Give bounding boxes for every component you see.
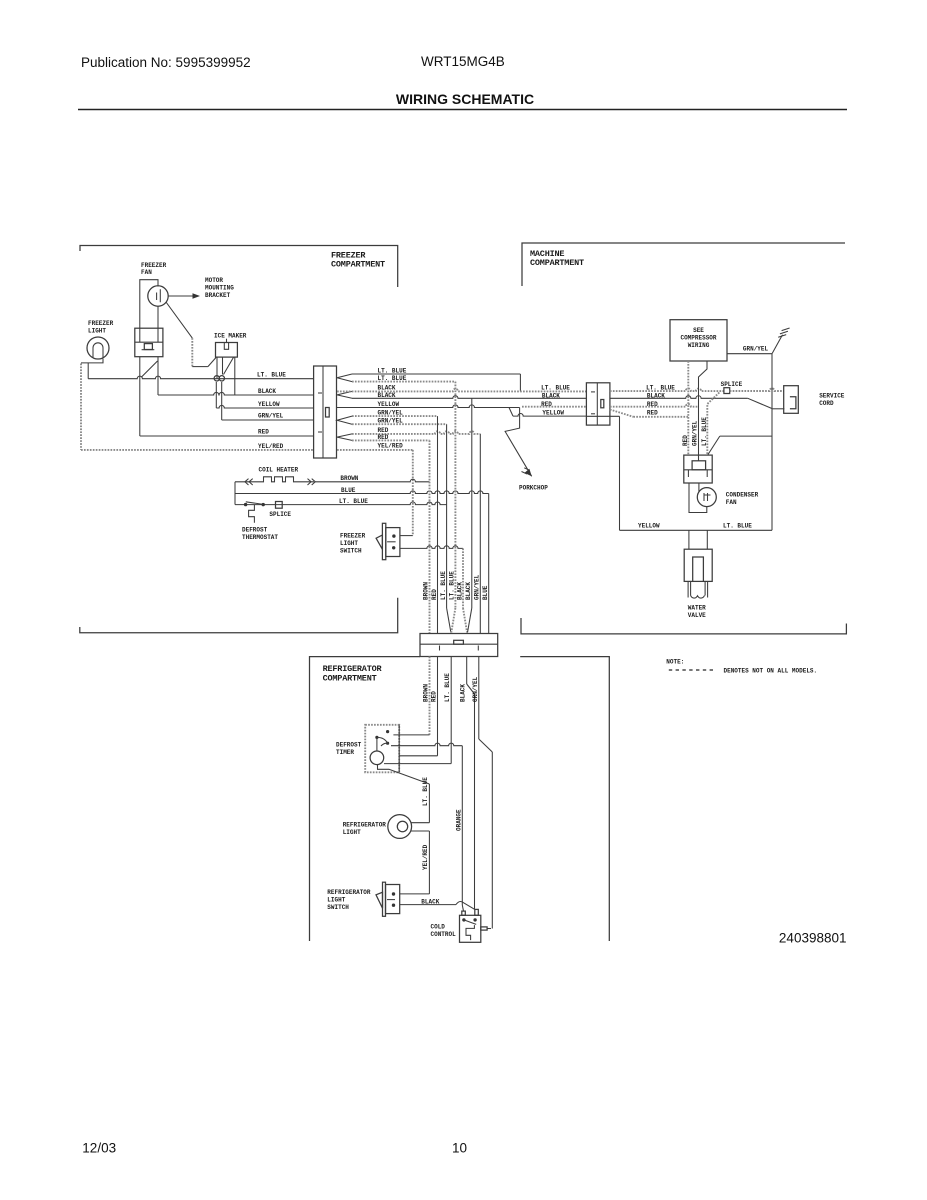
- wire RED m-right 2 dashed: [610, 410, 633, 417]
- wire from compressor box right: [699, 361, 708, 461]
- svg-text:YELLOW: YELLOW: [638, 523, 660, 530]
- svg-text:ICE MAKER: ICE MAKER: [214, 333, 247, 340]
- splice S1: [276, 502, 283, 509]
- svg-text:LIGHT: LIGHT: [327, 897, 345, 904]
- wire GRN/YEL bundle: [479, 434, 481, 634]
- wire LT. BLUE heater: [235, 502, 447, 505]
- svg-text:BLUE: BLUE: [341, 487, 356, 494]
- freezer light switch SW1: [382, 523, 385, 559]
- wire RED m dashed: [522, 406, 586, 408]
- svg-text:DENOTES NOT ON ALL MODELS.: DENOTES NOT ON ALL MODELS.: [724, 668, 818, 675]
- wire BLACK r3 dashed: [337, 389, 586, 392]
- svg-text:THERMOSTAT: THERMOSTAT: [242, 534, 278, 541]
- svg-text:YEL/RED: YEL/RED: [422, 844, 429, 870]
- svg-text:PORKCHOP: PORKCHOP: [519, 485, 548, 492]
- freezer compartment border top: [80, 246, 398, 288]
- ice maker switch arm diagonal: [224, 357, 234, 374]
- ice maker connector rings: [214, 376, 219, 381]
- svg-text:BLACK: BLACK: [460, 684, 467, 702]
- svg-text:TIMER: TIMER: [336, 749, 354, 756]
- refrigerator light lamp L2: [388, 815, 412, 839]
- svg-text:LT. BLUE: LT. BLUE: [449, 571, 456, 600]
- svg-text:MOTOR: MOTOR: [205, 277, 223, 284]
- svg-text:LT. BLUE: LT. BLUE: [378, 368, 407, 375]
- wire GRN/YEL ground horizontal: [727, 353, 772, 355]
- wire GRN/YEL freezer: [222, 419, 314, 421]
- wire LT. BLUE bundle b: [454, 382, 456, 608]
- wire BLACK m-right: [610, 396, 748, 399]
- wire BLACK r4: [352, 396, 586, 399]
- wire BROWN bundle dashed: [429, 440, 431, 633]
- freezer fan bracket housing: [135, 328, 163, 357]
- svg-text:LT. BLUE: LT. BLUE: [541, 385, 570, 392]
- svg-text:BLACK: BLACK: [465, 582, 472, 600]
- svg-text:YELLOW: YELLOW: [378, 401, 400, 408]
- pin spade BLACK pair: [337, 391, 352, 398]
- svg-text:BLACK: BLACK: [378, 392, 396, 399]
- condenser fan motor M2: [698, 483, 700, 492]
- svg-text:BROWN: BROWN: [423, 582, 430, 600]
- machine compartment border top: [522, 243, 845, 286]
- freezer fan to ice maker wire: [166, 302, 192, 338]
- svg-text:LT. BLUE: LT. BLUE: [339, 498, 368, 505]
- svg-text:RED: RED: [647, 410, 658, 417]
- svg-text:SWITCH: SWITCH: [340, 548, 362, 555]
- wire LT. BLUE splice to service cord dashed: [730, 388, 784, 391]
- wire BLACK freezer: [158, 392, 314, 395]
- svg-text:GRN/YEL: GRN/YEL: [472, 676, 479, 702]
- water valve feed wires: [688, 530, 690, 549]
- ice maker connector: [216, 343, 238, 358]
- splice S2: [724, 388, 730, 394]
- svg-text:BROWN: BROWN: [422, 684, 429, 702]
- coil heater element R1: [235, 477, 314, 482]
- svg-text:BLACK: BLACK: [542, 392, 560, 399]
- svg-text:SERVICE: SERVICE: [819, 393, 845, 400]
- svg-text:YEL/RED: YEL/RED: [378, 443, 404, 450]
- freezer light lamp L1: [87, 337, 109, 359]
- svg-text:BLACK: BLACK: [457, 582, 464, 600]
- svg-text:LT. BLUE: LT. BLUE: [723, 523, 752, 530]
- wire BLACK bundle dashed: [462, 548, 464, 608]
- svg-text:SPLICE: SPLICE: [269, 511, 291, 518]
- connector block P2 machine: [586, 383, 610, 425]
- coil heater left bracket wire: [234, 482, 236, 505]
- wire BLACK refrigerator: [466, 657, 468, 685]
- svg-text:NOTE:: NOTE:: [666, 659, 684, 666]
- svg-text:DEFROST: DEFROST: [242, 527, 268, 534]
- freezer light switch output wire: [400, 546, 463, 549]
- wire YEL/RED freezer dashed: [81, 449, 314, 451]
- ice maker pin 1: [216, 357, 218, 379]
- refrigerator light wires: [411, 822, 430, 824]
- pin spade RED pair: [337, 434, 352, 441]
- svg-text:FREEZER: FREEZER: [141, 262, 167, 269]
- wire GRN/YEL to cold control tab: [487, 928, 491, 930]
- wire YELLOW under P2: [586, 415, 619, 417]
- svg-text:DEFROST: DEFROST: [336, 742, 362, 749]
- wire LT. BLUE bundle a: [446, 424, 448, 608]
- compressor overload assembly: [684, 455, 712, 483]
- see compressor wiring box: [670, 320, 727, 361]
- porkchop arrow: [505, 408, 532, 477]
- svg-text:WRT15MG4B: WRT15MG4B: [421, 54, 505, 69]
- freezer compartment border bottom: [80, 598, 398, 633]
- svg-text:VALVE: VALVE: [688, 612, 706, 619]
- service cord connector: [784, 386, 799, 414]
- svg-text:GRN/YEL: GRN/YEL: [692, 420, 699, 446]
- water valve prongs: [688, 581, 708, 597]
- wire RED into timer: [399, 755, 437, 757]
- svg-text:ORANGE: ORANGE: [455, 809, 462, 831]
- svg-text:YELLOW: YELLOW: [258, 401, 280, 408]
- svg-text:CORD: CORD: [819, 400, 834, 407]
- svg-text:RED: RED: [258, 429, 269, 436]
- wire into light switch top: [400, 893, 430, 895]
- condenser loop top wire: [720, 435, 772, 437]
- svg-text:FREEZER: FREEZER: [88, 320, 114, 327]
- svg-text:FAN: FAN: [141, 269, 152, 276]
- svg-text:LIGHT: LIGHT: [340, 540, 358, 547]
- svg-text:SWITCH: SWITCH: [327, 904, 349, 911]
- wire RED r9 dashed: [352, 439, 430, 441]
- svg-text:BRACKET: BRACKET: [205, 292, 231, 299]
- svg-text:GRN/YEL: GRN/YEL: [743, 346, 769, 353]
- refrigerator light switch SW2: [383, 882, 386, 916]
- svg-text:LT. BLUE: LT. BLUE: [422, 777, 429, 806]
- svg-text:CONTROL: CONTROL: [431, 931, 457, 938]
- condenser loop bottom wire: [620, 529, 773, 531]
- wire LT. BLUE m-right dashed: [610, 388, 724, 391]
- machine compartment border bottom: [521, 618, 846, 634]
- cold control TH2: [460, 915, 481, 942]
- freezer light dashed wire down: [80, 364, 82, 450]
- pin spade LT. BLUE pair: [337, 374, 352, 382]
- svg-text:COMPARTMENT: COMPARTMENT: [331, 260, 385, 270]
- wire BLACK bundle b: [471, 398, 473, 608]
- wire RED refrigerator: [437, 657, 439, 756]
- svg-text:LIGHT: LIGHT: [343, 829, 361, 836]
- defrost timer motor M3: [370, 751, 384, 765]
- wire LT. BLUE r2 dashed: [352, 381, 455, 383]
- svg-text:LT. BLUE: LT. BLUE: [701, 417, 708, 446]
- svg-text:REFRIGERATOR: REFRIGERATOR: [323, 664, 383, 674]
- note dashed sample: [669, 669, 717, 671]
- svg-text:FREEZER: FREEZER: [340, 533, 366, 540]
- svg-text:COMPRESSOR: COMPRESSOR: [680, 335, 716, 342]
- svg-text:COLD: COLD: [431, 924, 446, 931]
- svg-text:BROWN: BROWN: [340, 475, 358, 482]
- svg-text:GRN/YEL: GRN/YEL: [473, 574, 480, 600]
- chassis ground symbol: [772, 335, 783, 354]
- svg-text:SEE: SEE: [693, 327, 704, 334]
- wire RED freezer: [140, 435, 314, 437]
- wire RED r8 dashed: [352, 431, 480, 434]
- svg-text:LT. BLUE: LT. BLUE: [444, 673, 451, 702]
- wire BROWN heater: [316, 479, 430, 482]
- svg-text:GRN/YEL: GRN/YEL: [258, 413, 284, 420]
- svg-text:12/03: 12/03: [82, 1141, 116, 1156]
- svg-text:BLUE: BLUE: [482, 585, 489, 600]
- defrost timer box: [365, 725, 399, 773]
- motor mounting bracket arrow: [169, 295, 194, 297]
- svg-text:SPLICE: SPLICE: [721, 381, 743, 388]
- svg-text:REFRIGERATOR: REFRIGERATOR: [327, 889, 371, 896]
- svg-text:LT. BLUE: LT. BLUE: [257, 372, 286, 379]
- svg-text:YELLOW: YELLOW: [542, 409, 564, 416]
- wire BROWN refrigerator dashed: [429, 657, 431, 735]
- wire GRN/YEL refrigerator: [478, 657, 480, 740]
- wire LT. BLUE freezer: [88, 376, 313, 379]
- freezer fan support wires: [140, 280, 158, 329]
- wire LT. BLUE r1: [352, 373, 520, 375]
- wire GRN/YEL r7 dashed: [352, 423, 447, 425]
- svg-text:COMPARTMENT: COMPARTMENT: [323, 674, 377, 684]
- defrost timer output diagonal: [378, 764, 430, 784]
- svg-text:RED: RED: [378, 427, 389, 434]
- wire from compressor box left dashed: [687, 361, 689, 455]
- condenser fan return wire: [689, 483, 707, 513]
- wire RED bundle: [437, 416, 439, 633]
- wire ORANGE from timer: [391, 743, 462, 746]
- svg-text:RED: RED: [431, 691, 438, 702]
- wire YELLOW freezer: [216, 405, 313, 408]
- freezer fan switch arm: [142, 361, 158, 377]
- wire LT. BLUE into timer: [384, 763, 451, 765]
- wire LT. BLUE to compressor dashed: [707, 393, 719, 455]
- svg-text:WIRING: WIRING: [688, 342, 710, 349]
- wire YEL/RED into switch: [400, 535, 413, 537]
- svg-text:RED: RED: [682, 435, 689, 446]
- wire LT. BLUE refrigerator: [450, 657, 452, 764]
- defrost thermostat TH1: [244, 503, 247, 506]
- wire BLUE bundle: [488, 494, 490, 634]
- connector block P1 freezer: [314, 366, 337, 458]
- wire YELLOW r5: [337, 405, 520, 408]
- ice maker pin 3: [234, 357, 236, 395]
- svg-text:REFRIGERATOR: REFRIGERATOR: [343, 822, 387, 829]
- pin spade GRN/YEL pair: [337, 416, 352, 424]
- svg-text:WATER: WATER: [688, 605, 706, 612]
- svg-text:COMPARTMENT: COMPARTMENT: [530, 258, 584, 268]
- svg-text:WIRING SCHEMATIC: WIRING SCHEMATIC: [396, 91, 534, 107]
- ice maker pin 2: [222, 357, 224, 374]
- wire RED m-right dashed: [610, 404, 699, 407]
- svg-text:FAN: FAN: [726, 499, 737, 506]
- svg-text:LT. BLUE: LT. BLUE: [440, 571, 447, 600]
- svg-text:CONDENSER: CONDENSER: [726, 492, 759, 499]
- wire BROWN into timer: [393, 734, 429, 736]
- wire GRN/YEL vertical machine: [771, 354, 773, 531]
- svg-text:Publication No: 5995399952: Publication No: 5995399952: [81, 55, 251, 70]
- wire YEL/RED r10 dashed: [337, 449, 413, 451]
- refrigerator compartment border: [310, 657, 421, 941]
- svg-text:10: 10: [452, 1141, 467, 1156]
- svg-text:MOUNTING: MOUNTING: [205, 285, 234, 292]
- freezer fan motor M1: [148, 286, 168, 306]
- svg-text:240398801: 240398801: [779, 931, 847, 946]
- svg-text:BLACK: BLACK: [258, 388, 276, 395]
- svg-text:LIGHT: LIGHT: [88, 328, 106, 335]
- connector block P3 refrigerator: [420, 634, 498, 657]
- svg-text:RED: RED: [431, 589, 438, 600]
- svg-text:COIL HEATER: COIL HEATER: [259, 467, 299, 474]
- freezer light stub to lt.blue wire: [81, 359, 103, 363]
- water valve connector: [684, 549, 712, 581]
- freezer fan pin wire 1: [139, 357, 141, 436]
- title underline: [78, 109, 847, 111]
- freezer fan pin wire 2: [157, 307, 159, 330]
- wire GRN/YEL r6 dashed: [352, 415, 438, 417]
- wire BLACK switch to cold control: [400, 904, 456, 906]
- wire BLUE heater: [235, 491, 489, 494]
- defrost timer contacts: [386, 730, 389, 733]
